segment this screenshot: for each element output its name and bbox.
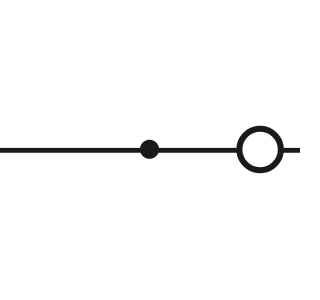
terminal circle — [239, 129, 280, 170]
junction dot — [140, 140, 159, 159]
wire — [283, 148, 300, 153]
wire — [0, 148, 238, 153]
